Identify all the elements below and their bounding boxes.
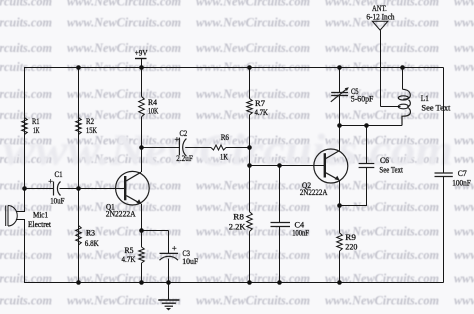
svg-text:www.NewCircuits.com: www.NewCircuits.com [67,0,181,9]
svg-text:www.NewCircuits.com: www.NewCircuits.com [0,0,52,9]
svg-text:www.NewCircuits.com: www.NewCircuits.com [196,179,310,193]
svg-text:www.NewCircuits.com: www.NewCircuits.com [196,272,310,286]
svg-text:1K: 1K [33,125,40,135]
svg-text:2N2222A: 2N2222A [106,208,137,218]
resistor R2 [76,118,82,135]
svg-text:www.NewCircuits.com: www.NewCircuits.com [196,87,310,101]
capacitor C4 [271,223,291,227]
svg-text:6.8K: 6.8K [85,238,100,248]
wire left rail lower (mic bottom to bottom rail) [16,220,25,283]
svg-text:www.NewCircuits.com: www.NewCircuits.com [0,272,52,286]
svg-text:www.NewCircuits.com: www.NewCircuits.com [325,294,439,308]
wire R2 branch [78,68,80,189]
antenna ANT [372,21,400,106]
svg-text:1K: 1K [220,151,229,161]
svg-text:www.NewCircuits.com: www.NewCircuits.com [454,0,474,9]
resistor R7 [247,99,253,115]
capacitor C1 [54,182,61,196]
svg-text:www.NewCircuits.com: www.NewCircuits.com [454,16,474,30]
wire C6 to emitter node [340,168,367,206]
svg-text:www.NewCircuits.com: www.NewCircuits.com [67,224,181,238]
svg-text:www.NewCircuits.com: www.NewCircuits.com [196,200,310,214]
svg-text:Electret: Electret [28,219,52,229]
wire Q2 base [250,165,325,167]
wire Q1 emitter [141,204,143,247]
transistor Q1 2N2222A [116,171,150,205]
svg-text:www.NewCircuits.com: www.NewCircuits.com [325,41,439,55]
wire left rail upper (mic top to top rail) [16,68,25,212]
capacitor C2 [142,138,212,157]
svg-text:www.NewCircuits.com: www.NewCircuits.com [454,41,474,55]
svg-text:www.NewCircuits.com: www.NewCircuits.com [67,108,181,122]
svg-text:www.NewCircuits.com: www.NewCircuits.com [0,248,52,262]
wire Q2 emitter [339,180,341,233]
wire R8 to bottom rail [249,231,251,282]
resistor R1 [22,118,28,135]
wire C4 branch [279,166,281,223]
svg-text:www.NewCircuits.com: www.NewCircuits.com [0,294,52,308]
svg-text:R8: R8 [233,212,244,222]
capacitor C6 [359,164,375,168]
wire R7 branch [249,68,251,99]
svg-text:www.NewCircuits.com: www.NewCircuits.com [325,224,439,238]
svg-text:C6: C6 [380,155,389,165]
svg-text:www.NewCircuits.com: www.NewCircuits.com [0,16,52,30]
svg-text:15K: 15K [86,125,98,135]
svg-text:www.NewCircuits.com: www.NewCircuits.com [454,152,474,166]
resistor R9 [337,233,343,251]
svg-text:See Text: See Text [379,165,403,175]
wire top +9V rail [24,67,444,69]
svg-text:2.2K: 2.2K [229,221,247,231]
resistor R8 [247,212,253,232]
svg-text:www.NewCircuits.com: www.NewCircuits.com [67,16,181,30]
svg-text:www.NewCircuits.com: www.NewCircuits.com [196,108,310,122]
svg-text:100nF: 100nF [452,178,471,188]
svg-text:10uF: 10uF [182,256,198,266]
svg-text:www.NewCircuits.com: www.NewCircuits.com [0,87,52,101]
svg-text:C7: C7 [458,168,467,178]
capacitor C5 variable [331,87,349,102]
capacitor C3 [160,253,179,260]
svg-text:www.NewCircuits.com: www.NewCircuits.com [196,248,310,262]
svg-text:www.NewCircuits.com: www.NewCircuits.com [454,60,474,74]
wire tank horizontal [340,125,403,127]
transistor Q2 2N2222A [314,149,348,183]
svg-text:www.NewCircuits.com: www.NewCircuits.com [454,272,474,286]
svg-text:www.NewCircuits.com: www.NewCircuits.com [67,41,181,55]
svg-text:100nF: 100nF [292,228,309,238]
svg-text:www.NewCircuits.com: www.NewCircuits.com [0,179,52,193]
svg-text:220: 220 [345,241,357,251]
wire R6 to R7/R8 node [226,147,250,149]
svg-text:www.NewCircuits.com: www.NewCircuits.com [196,16,310,30]
wire C3 to bottom rail [168,259,170,283]
wire R3 branch [78,189,80,283]
svg-text:www.NewCircuits.com: www.NewCircuits.com [196,0,310,9]
wire R9 to bottom rail [339,251,341,283]
svg-text:6-12 Inch: 6-12 Inch [366,11,395,21]
svg-text:www.NewCircuits.com: www.NewCircuits.com [196,294,310,308]
svg-text:www.NewCircuits.com: www.NewCircuits.com [454,133,474,147]
svg-text:www.NewCircuits.com: www.NewCircuits.com [454,294,474,308]
svg-text:L1: L1 [421,93,429,103]
wire right rail upper (top rail to C7) [443,68,445,174]
wire node to R8 [249,166,251,212]
svg-text:www.NewCircuits.com: www.NewCircuits.com [67,87,181,101]
wire L1 top [402,68,404,90]
svg-text:2.2uF: 2.2uF [176,153,193,163]
svg-text:10K: 10K [148,105,159,115]
wire C6 branch top [366,126,368,164]
capacitor C7 [435,173,453,177]
wire R7 to node [249,115,251,166]
inductor L1 [398,89,410,125]
wire R5 to bottom rail [141,263,143,283]
wire tank branch top [339,68,341,93]
wire C3 top [168,231,170,254]
svg-text:www.NewCircuits.com: www.NewCircuits.com [196,41,310,55]
wire R4 branch upper [141,68,143,97]
svg-text:C1: C1 [55,169,63,179]
svg-text:www.NewCircuits.com: www.NewCircuits.com [325,248,439,262]
resistor R5 [139,247,145,263]
svg-text:10uF: 10uF [50,196,65,206]
svg-text:+9V: +9V [135,48,148,58]
resistor R4 [139,97,145,117]
wire C4 to bottom rail [279,227,281,283]
svg-text:R6: R6 [221,132,229,142]
ground [158,283,179,311]
svg-text:www.NewCircuits.com: www.NewCircuits.com [325,272,439,286]
resistor R6 [211,145,226,150]
svg-text:www.NewCircuits.com: www.NewCircuits.com [325,179,439,193]
svg-text:See Text: See Text [421,102,451,112]
microphone Mic1 Electret [6,206,18,227]
svg-text:www.NewCircuits.com: www.NewCircuits.com [454,87,474,101]
svg-text:+: + [48,176,53,186]
wire emitter node to C3 [142,230,169,232]
svg-text:www.NewCircuits.com: www.NewCircuits.com [454,224,474,238]
svg-text:www.NewCircuits.com: www.NewCircuits.com [454,248,474,262]
svg-text:5-60pF: 5-60pF [351,94,374,104]
wire C1 to Q1 base [60,188,125,190]
wire mic node to C1 [25,188,54,190]
svg-text:R3: R3 [86,228,95,238]
svg-text:+: + [172,243,177,253]
wire C5 to collector node [339,96,341,126]
wire Q2 collector [339,126,341,151]
svg-text:4.7K: 4.7K [255,107,269,117]
svg-text:www.NewCircuits.com: www.NewCircuits.com [0,41,52,55]
resistor R3 [76,226,82,246]
power +9V symbol [135,59,147,68]
svg-text:www.NewCircuits.com: www.NewCircuits.com [454,108,474,122]
svg-text:www.NewCircuits.com: www.NewCircuits.com [325,200,439,214]
wire right rail lower (C7 to bottom rail) [443,177,445,283]
svg-text:www.NewCircuits.com: www.NewCircuits.com [67,272,181,286]
svg-text:www.NewCircuits.com: www.NewCircuits.com [454,200,474,214]
svg-text:2N2222A: 2N2222A [300,187,328,197]
svg-text:C2: C2 [180,128,188,138]
wire R4 to Q1 collector [141,117,143,172]
wire bottom ground rail [24,282,444,284]
svg-text:4.7K: 4.7K [122,254,137,264]
